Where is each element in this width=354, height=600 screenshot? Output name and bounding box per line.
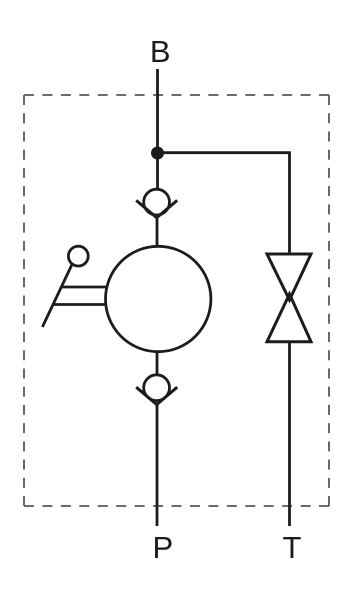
enclosure dashed box left edge: [23, 95, 25, 506]
lever link upper: [63, 286, 109, 289]
enclosure dashed box right edge: [328, 95, 330, 506]
enclosure dashed box top edge: [24, 94, 329, 96]
hand pump body: [106, 246, 211, 351]
wire junction to right branch: [158, 153, 290, 255]
svg-text:P: P: [152, 530, 173, 565]
check valve CV2 seat: [136, 387, 177, 404]
shut-off valve lower triangle: [267, 294, 311, 342]
check valve CV1 seat: [136, 200, 177, 217]
wire B to check valve: [156, 69, 159, 190]
check valve CV1 ball: [144, 189, 170, 215]
shut-off valve upper triangle: [267, 254, 311, 300]
wire CV1 to pump: [156, 217, 159, 247]
enclosure dashed box bottom edge: [24, 505, 329, 507]
svg-text:T: T: [283, 530, 302, 565]
wire CV2 to port P: [156, 404, 159, 526]
lever handle: [42, 264, 72, 327]
lever knob: [68, 246, 88, 266]
svg-text:B: B: [150, 34, 171, 69]
check valve CV2 ball: [144, 375, 170, 401]
node junction dot: [151, 147, 164, 160]
wire pump to check valve CV2: [156, 352, 159, 377]
wire valve to port T: [288, 342, 291, 526]
lever link lower: [54, 303, 107, 306]
